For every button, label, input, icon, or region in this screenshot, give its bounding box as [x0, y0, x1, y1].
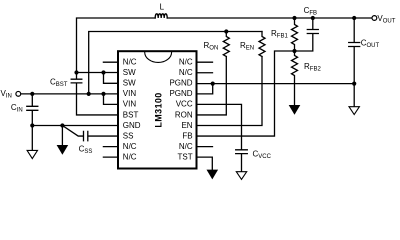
junction dot VIN/rail2 [87, 92, 91, 96]
wire: PGND pins joined (U link) [197, 84, 213, 94]
capacitor CSS [62, 126, 118, 141]
wire: SW branch to second SW pin [104, 73, 119, 84]
svg-text:FB: FB [182, 131, 192, 140]
svg-text:N/C: N/C [123, 142, 137, 151]
svg-text:GND: GND [123, 121, 141, 130]
svg-text:PGND: PGND [169, 89, 192, 98]
svg-text:VIN: VIN [123, 100, 137, 109]
svg-text:RON: RON [175, 110, 193, 119]
svg-text:BST: BST [123, 110, 139, 119]
svg-text:VCC: VCC [176, 100, 193, 109]
junction dot VIN/CIN [30, 92, 34, 96]
resistor REN [259, 32, 265, 57]
wire: RON pin to RON resistor [197, 57, 227, 115]
svg-text:SW: SW [123, 68, 136, 77]
svg-text:COUT: COUT [361, 39, 380, 50]
svg-text:TST: TST [177, 153, 192, 162]
capacitor CIN [27, 94, 38, 151]
junction dot PGND link [211, 82, 215, 86]
junction dot VOUT/CFB [311, 16, 315, 20]
pin stub N/C right row9 [197, 146, 213, 148]
wire: FB pin to feedback node [197, 51, 295, 136]
svg-text:N/C: N/C [179, 58, 193, 67]
wire: PGND line to COUT ground [197, 83, 355, 85]
svg-text:CSS: CSS [79, 144, 93, 155]
junction dot VOUT/COUT [352, 16, 356, 20]
pin stub N/C left row10 [103, 156, 118, 158]
ground (open) under CIN [27, 150, 37, 158]
capacitor CVCC with wire from VCC pin [197, 104, 248, 171]
wire: stem of analog ground arrow [61, 126, 63, 147]
wire: VIN rail [21, 93, 118, 95]
svg-text:RFB2: RFB2 [304, 62, 321, 73]
junction dot GND/CSS [60, 123, 64, 127]
terminal VIN [16, 91, 21, 96]
wire: SW row to pin SW [77, 72, 119, 74]
junction dot rail2/RON [224, 29, 228, 33]
svg-text:N/C: N/C [179, 142, 193, 151]
wire: VIN branch to second VIN pin [104, 94, 119, 105]
svg-text:VOUT: VOUT [377, 14, 395, 25]
ground (filled arrow) left analog ground [57, 145, 69, 155]
IC U1 LM3100 body [118, 51, 197, 168]
pin stub N/C right row1 [197, 61, 213, 63]
wire: EN pin to REN resistor [197, 57, 263, 126]
pin stub N/C left row1 [103, 61, 118, 63]
resistor RFB2 [292, 51, 298, 106]
wire: SW node vertical up to top rail [77, 18, 156, 73]
svg-text:L: L [160, 2, 165, 11]
junction dot SW branch [101, 70, 105, 74]
svg-text:EN: EN [181, 121, 192, 130]
wire: GND row to GND pin [32, 125, 118, 127]
inductor L [155, 14, 167, 18]
junction dot GND/CIN [30, 123, 34, 127]
svg-text:N/C: N/C [123, 153, 137, 162]
svg-text:N/C: N/C [123, 58, 137, 67]
junction dot SW/CBST [74, 70, 78, 74]
resistor RON [223, 32, 229, 57]
ground (filled arrow) at TST [207, 170, 219, 180]
junction dot PGND/COUT [352, 82, 356, 86]
terminal VOUT [372, 16, 377, 21]
wire: TST pin to ground arrow [197, 157, 213, 170]
resistor RFB1 [292, 18, 298, 51]
capacitor CBST [71, 73, 118, 115]
svg-text:REN: REN [240, 41, 254, 52]
junction dot VOUT/RFB1 [292, 16, 296, 20]
capacitor CFB [295, 18, 319, 51]
svg-text:VIN: VIN [1, 89, 12, 100]
ground (open) under COUT [349, 107, 359, 115]
svg-text:LM3100: LM3100 [154, 92, 164, 127]
svg-text:CIN: CIN [11, 103, 23, 114]
pin stub N/C right row2 [197, 72, 213, 74]
IC pin labels left column [123, 58, 141, 162]
IC pin labels right column [169, 58, 192, 162]
svg-text:RFB1: RFB1 [271, 29, 288, 40]
junction dot FB node [292, 49, 296, 53]
IC pin-1 notch [145, 52, 172, 62]
svg-text:CFB: CFB [304, 6, 317, 17]
svg-text:RON: RON [204, 41, 219, 52]
svg-text:N/C: N/C [179, 68, 193, 77]
svg-text:SS: SS [123, 131, 134, 140]
capacitor COUT [349, 18, 360, 107]
svg-text:CBST: CBST [50, 77, 68, 88]
svg-text:SW: SW [123, 79, 136, 88]
svg-text:PGND: PGND [169, 79, 192, 88]
svg-text:VIN: VIN [123, 89, 137, 98]
svg-text:CVCC: CVCC [253, 149, 272, 160]
ground (filled arrow) under RFB2 [289, 105, 301, 115]
wire: inductor to VOUT terminal (VOUT net) [167, 17, 372, 19]
wire: VIN rail up and over to RON/REN (rail 2) [89, 32, 262, 94]
pin stub N/C left row9 [103, 146, 118, 148]
junction dot VIN branch [101, 92, 105, 96]
ground (open) under CVCC [236, 172, 246, 180]
